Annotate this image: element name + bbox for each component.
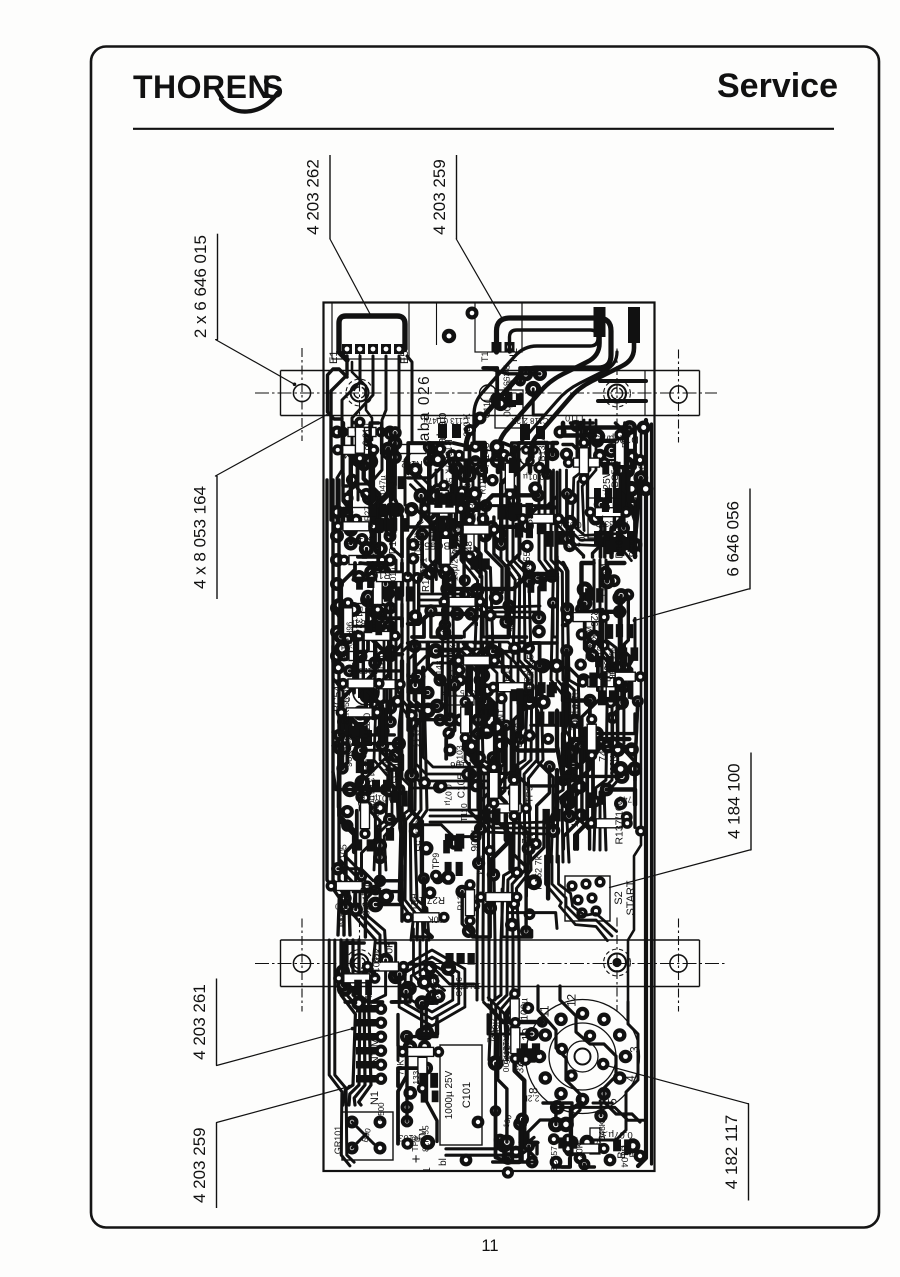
bracket hole top-right [670,386,687,403]
wire to motor [484,998,514,1060]
svg-text:D103: D103 [388,529,399,554]
wire H2 outer loop [466,318,611,472]
wire nested frame [416,656,504,774]
svg-text:R103: R103 [595,641,605,663]
trace to pin7 [582,1002,638,1148]
svg-text:4 x 8 053 164: 4 x 8 053 164 [191,486,210,589]
svg-text:1: 1 [422,1167,433,1173]
svg-text:748: 748 [618,795,632,805]
hole centerline [678,919,680,1012]
svg-text:TP8: TP8 [410,1136,420,1152]
parts cluster right upper [560,420,653,558]
svg-text:T106: T106 [450,759,472,770]
centerline bottom [255,963,725,965]
svg-text:12: 12 [567,994,579,1007]
resistor row under top bracket [331,426,447,470]
svg-text:TP9: TP9 [408,894,419,911]
hole centerline [301,919,303,1012]
svg-text:348K: 348K [598,1120,607,1140]
svg-text:748: 748 [598,744,609,761]
svg-text:T106: T106 [468,828,479,852]
wire horiz mid B [430,810,545,834]
svg-text:33K: 33K [374,946,384,963]
wire nested frame [402,642,518,788]
wire right-center bundle [539,472,581,862]
svg-text:220K: 220K [454,523,464,543]
svg-text:70K: 70K [578,530,589,548]
wire nested hex [405,957,459,1019]
svg-text:2 x 6 646 015: 2 x 6 646 015 [191,235,210,338]
svg-text:R132 7k: R132 7k [353,606,364,642]
svg-text:82K 55: 82K 55 [525,654,535,683]
hole centerline [678,350,680,443]
svg-text:BC557: BC557 [522,547,532,574]
capacitor black pair left [352,730,360,746]
svg-text:C105: C105 [456,774,467,798]
svg-text:18K: 18K [570,810,581,828]
svg-text:R132 7k: R132 7k [443,439,453,474]
svg-text:82K 55: 82K 55 [413,820,424,852]
svg-text:R13: R13 [387,481,396,496]
trace bar D2 [530,338,634,472]
svg-text:70K: 70K [615,642,626,661]
parts cluster below H2 [483,365,547,417]
svg-text:R137/100: R137/100 [615,799,626,844]
T110 pads [554,413,597,439]
bottom right resistor 470K [590,1128,600,1154]
wire bottom left edge [329,940,354,1166]
svg-text:R13: R13 [502,665,512,682]
mounting bracket bottom [281,939,700,941]
svg-text:2,2K: 2,2K [522,1093,540,1103]
trace bar D1 [498,332,600,472]
wire right top link [554,470,641,561]
svg-text:4 203 262: 4 203 262 [304,159,323,235]
svg-text:C106: C106 [502,1045,511,1065]
mounting pad top-left [354,387,365,398]
hole centerline [359,918,361,1011]
svg-text:R103: R103 [367,569,390,580]
svg-text:+: + [412,1151,421,1168]
svg-text:4 203 259: 4 203 259 [430,159,449,235]
wire center-left bundle [396,560,429,940]
svg-text:2x55: 2x55 [626,535,637,557]
hole centerline [616,918,618,1011]
resistor R143 row [446,440,510,475]
svg-text:T1: T1 [480,351,490,362]
wire nested hex [399,950,465,1026]
svg-text:T110: T110 [357,786,367,806]
svg-text:C106: C106 [454,977,464,997]
wire right upper bundle [572,420,596,530]
svg-text:C118 2,2K: C118 2,2K [511,416,549,425]
svg-text:82K 55: 82K 55 [341,697,351,724]
svg-text:D105: D105 [561,671,572,695]
svg-text:TP1: TP1 [377,654,387,671]
svg-text:1M: 1M [477,706,491,717]
svg-text:3: 3 [630,1046,642,1052]
svg-text:C104: C104 [619,1145,630,1168]
wire E-fan to left bundle [331,356,412,530]
centerline top [255,392,717,394]
wire H2 inner loop [474,330,598,472]
wire thick from bars to right [514,352,617,472]
svg-text:11: 11 [481,1237,498,1255]
svg-text:1M: 1M [470,615,480,627]
svg-text:TP9: TP9 [525,786,536,803]
wire nested hex [411,964,453,1012]
svg-text:10k: 10k [516,572,532,583]
svg-text:10k: 10k [406,462,416,476]
svg-text:C101: C101 [461,1082,473,1108]
parts cluster right mid [560,563,647,849]
svg-text:S2: S2 [613,891,625,904]
S2 pads [566,876,605,918]
motor inner pads [556,1030,610,1082]
svg-text:100µ: 100µ [336,910,345,928]
svg-text:TP8: TP8 [463,483,473,499]
svg-text:96K 1%: 96K 1% [344,733,355,767]
connector zone E1-E5 outline [332,303,409,360]
wire right edge bundle [638,420,652,1166]
svg-text:T110: T110 [459,803,469,822]
svg-text:BC557: BC557 [418,540,450,551]
svg-text:220K: 220K [575,1142,585,1163]
bracket hole bottom-right [670,955,687,972]
motor connector outer circle [526,1000,640,1114]
left column resistors [339,507,388,675]
mounting pad bottom-left [354,957,365,968]
motor connector inner circles [549,1023,616,1090]
svg-text:Service: Service [717,67,838,105]
svg-text:R152 7k: R152 7k [534,855,544,890]
hole centerline [301,348,303,441]
svg-text:R26 1k: R26 1k [588,609,599,640]
svg-text:R144: R144 [421,568,432,592]
capacitor C101 outline [440,1045,482,1145]
svg-text:0,07µ: 0,07µ [443,784,453,805]
capacitor cluster C112 C113 [423,416,476,438]
svg-text:1M: 1M [495,708,506,722]
svg-text:6 646 056: 6 646 056 [724,501,743,577]
wire diag A [410,475,446,540]
wire E-connector loop [339,316,405,360]
wire right bundle [594,560,618,850]
svg-text:4 203 261: 4 203 261 [190,984,209,1060]
C111 1µ [462,380,523,437]
capacitor cluster right of center top [511,416,549,440]
svg-text:70K: 70K [384,941,395,960]
svg-text:R144: R144 [596,515,606,536]
wire left inner weave [374,640,398,870]
via top-center [442,329,456,343]
svg-text:0,01µ: 0,01µ [361,423,371,445]
connector E1-E5 pads [328,344,411,364]
svg-text:402K: 402K [609,755,619,776]
bracket hole top-left [293,384,310,401]
svg-text:R148: R148 [338,638,349,662]
svg-text:R137/100: R137/100 [366,766,376,806]
zone divider line [436,303,438,346]
svg-text:R133: R133 [456,890,466,911]
electrolytic C109 [353,679,379,705]
wire center bundle B [461,472,495,1000]
svg-text:748: 748 [476,501,490,510]
connector zone H2 outline [475,303,522,353]
parts cluster bottom right [543,1100,645,1172]
parts cluster bracket band [333,941,481,1010]
wire bottom edge run [446,1137,538,1155]
svg-text:0,07µ: 0,07µ [608,1129,633,1140]
svg-text:10µ/25V: 10µ/25V [602,471,613,510]
wire under bracket [414,940,445,1000]
parts cluster center lower [402,639,569,938]
mounting pad bottom-right [612,958,621,967]
wire nested frame [423,663,497,767]
hex center pads [425,973,439,987]
svg-text:133: 133 [412,1070,421,1084]
wire bundle to comb [341,940,371,1105]
svg-text:82K 55: 82K 55 [445,477,454,503]
svg-text:1000µ 25V: 1000µ 25V [444,1070,455,1119]
svg-text:R27 1k: R27 1k [364,494,373,521]
frame inner pads [434,674,487,757]
svg-text:0,01µ: 0,01µ [560,520,581,530]
svg-text:THOREN: THOREN [133,69,271,105]
IC MC3302 outline [588,498,636,538]
svg-text:D104: D104 [474,855,484,875]
connector H2 pads [480,342,520,362]
header rule [133,128,834,130]
svg-text:0,047µ: 0,047µ [378,475,388,501]
svg-text:4 203 259: 4 203 259 [190,1127,209,1203]
hole centerline [616,349,618,442]
svg-text:33K: 33K [516,1055,527,1073]
svg-text:2x55: 2x55 [524,514,535,534]
wire weaving through motor connector [528,986,580,1158]
svg-text:10K: 10K [428,915,444,925]
svg-text:70K: 70K [396,1060,406,1076]
svg-text:R144: R144 [412,726,422,748]
svg-text:D104: D104 [584,672,604,681]
rectifier GR101 box [342,1112,393,1160]
svg-text:4 182 117: 4 182 117 [722,1115,741,1189]
left pads column [330,505,397,663]
svg-text:BC557: BC557 [432,973,443,1002]
drill mark circle [480,385,497,402]
parts cluster bottom center [485,988,548,1178]
svg-text:R148: R148 [481,442,492,467]
wire loop around top-left mounting pad [328,369,348,419]
svg-text:4 184 100: 4 184 100 [725,763,744,839]
parts cluster center upper [405,439,575,640]
wire center bundle C [489,472,543,1060]
svg-text:TP9: TP9 [431,853,441,869]
svg-text:BC557: BC557 [549,1146,559,1172]
wire bottom-left diag [335,855,386,960]
wire runs to right edge [600,379,646,383]
THORENS logo [133,69,283,112]
B136A transistor [519,434,547,466]
D106 diode [594,454,647,486]
parts cluster bottom left inner [396,1003,445,1152]
svg-text:0,01µ: 0,01µ [382,752,391,773]
svg-text:100µ: 100µ [520,998,531,1021]
motor connector pin ring [517,994,641,1112]
svg-text:0,047µ: 0,047µ [361,713,372,743]
svg-text:N1: N1 [369,1091,381,1105]
wire right inner long trace [628,430,641,1002]
wire S2 corner [546,856,617,941]
wire left edge bundle [327,480,350,935]
svg-text:8: 8 [528,1087,540,1093]
svg-text:748: 748 [521,827,532,843]
parts cluster left column [326,563,418,937]
svg-text:748: 748 [464,540,475,557]
svg-text:B136A: B136A [621,423,630,448]
svg-text:220 K: 220 K [462,413,472,437]
svg-text:R128 5k: R128 5k [448,644,459,680]
mounting pad top-right [611,388,622,399]
svg-text:aba 026: aba 026 [416,375,433,442]
wire horiz mid A [420,594,540,618]
svg-text:C106: C106 [506,612,515,632]
parts cluster upper left [332,417,418,558]
svg-text:START: START [625,880,637,915]
svg-text:348K: 348K [491,1017,501,1039]
svg-text:bl: bl [438,1158,449,1166]
mounting bracket top [281,370,700,372]
wire center bundle A [430,470,454,700]
svg-text:10k: 10k [368,542,379,558]
hole centerline [359,348,361,441]
svg-text:133: 133 [468,503,478,518]
bracket hole bottom-left [293,955,310,972]
svg-text:0,047µ: 0,047µ [440,602,451,633]
connector comb fingers [356,1003,387,1085]
svg-text:R148: R148 [434,660,444,680]
bottom pads cluster [460,1116,647,1169]
PCB board outline [324,303,655,1172]
svg-text:C105: C105 [339,844,349,865]
svg-text:D106: D106 [514,722,525,747]
switch S2 box [565,876,610,921]
svg-text:2x55: 2x55 [564,531,574,549]
wire nested frame [409,649,511,781]
svg-text:1M: 1M [504,391,514,404]
svg-text:0,01µ: 0,01µ [523,472,545,482]
svg-text:T138 1M: T138 1M [598,563,608,597]
svg-text:C104: C104 [346,535,371,546]
svg-text:D106: D106 [614,534,625,559]
